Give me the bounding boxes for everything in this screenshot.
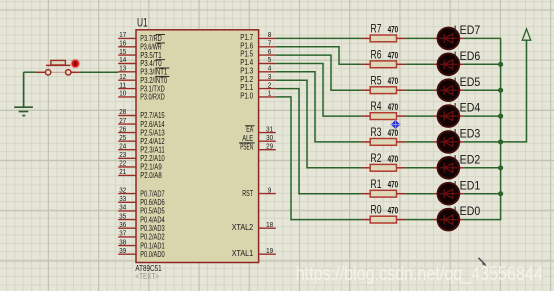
svg-text:LED5: LED5 [454, 77, 480, 89]
U1 pin 6 (P1.5) [240, 49, 276, 59]
junction bus/LED2 [498, 165, 503, 170]
svg-text:36: 36 [119, 222, 126, 229]
origin marker (blue diamond) [390, 119, 400, 129]
svg-text:https://blog.csdn.net/qq_43556: https://blog.csdn.net/qq_43556844 [296, 263, 543, 285]
LED LED3 [433, 131, 463, 153]
U1 pin 2 (P1.1) [240, 82, 276, 92]
wire R7 to LED7 [406, 37, 434, 39]
U1 pin 27 (P2.6/A14) [118, 118, 165, 129]
svg-text:470: 470 [388, 154, 399, 164]
wire R4 to LED4 [406, 115, 434, 117]
svg-text:3: 3 [268, 74, 272, 81]
U1 pin 11 (P3.1/TXD) [118, 82, 165, 93]
resistor R5 [362, 73, 406, 93]
push button (to P3.3) [36, 59, 80, 75]
svg-text:P1.0: P1.0 [240, 92, 253, 101]
U1 pin 23 (P2.2/A10) [118, 152, 165, 163]
wire LED2 to bus [464, 167, 502, 169]
mouse cursor [478, 258, 486, 266]
LED LED0 [433, 209, 463, 231]
LED LED7 [433, 28, 463, 50]
U1 pin 30 (ALE) [242, 134, 276, 143]
U1 pin 22 (P2.1/A9) [118, 161, 162, 172]
svg-text:34: 34 [119, 205, 126, 212]
U1 pin 1 (P1.0) [240, 91, 276, 101]
LED LED5 [433, 79, 463, 101]
svg-text:RST: RST [242, 189, 253, 198]
wire anode bus [500, 38, 502, 219]
U1 pin 39 (P0.0/AD0) [118, 248, 165, 259]
wire button to U1 pin 13 [79, 71, 118, 73]
svg-text:33: 33 [119, 196, 126, 203]
wire ground to button [24, 71, 37, 73]
svg-text:38: 38 [119, 239, 126, 246]
U1 pin 8 (P1.7) [240, 32, 276, 42]
svg-text:P0.7/AD7: P0.7/AD7 [140, 189, 165, 198]
U1 pin 19 (XTAL1) [232, 248, 276, 258]
svg-text:470: 470 [388, 24, 399, 34]
wire R0 to LED0 [406, 219, 434, 221]
svg-text:18: 18 [266, 222, 273, 229]
wire R3 to LED3 [406, 141, 434, 143]
U1 pin 12 (P3.2/INT0) [118, 74, 169, 85]
svg-text:470: 470 [388, 76, 399, 86]
svg-text:R7: R7 [371, 22, 382, 36]
svg-text:LED4: LED4 [454, 103, 481, 115]
LED LED2 [433, 157, 463, 179]
svg-text:470: 470 [388, 206, 399, 216]
svg-text:15: 15 [119, 49, 126, 56]
wire bus to power terminal [501, 40, 527, 142]
svg-text:12: 12 [119, 74, 126, 81]
svg-text:9: 9 [268, 187, 272, 194]
svg-text:470: 470 [388, 180, 399, 190]
svg-text:XTAL2: XTAL2 [232, 223, 254, 232]
wire LED0 to bus [464, 219, 502, 221]
svg-text:LED7: LED7 [454, 25, 480, 37]
svg-text:16: 16 [119, 41, 126, 48]
junction bus/LED6 [498, 62, 503, 67]
resistor R4 [362, 99, 406, 119]
svg-text:17: 17 [119, 32, 126, 39]
LED LED6 [433, 54, 463, 76]
wire P1.7 to R7 [276, 37, 362, 39]
junction bus/LED5 [498, 88, 503, 93]
svg-text:<TEXT>: <TEXT> [135, 272, 159, 281]
svg-text:R6: R6 [371, 47, 382, 61]
resistor R6 [362, 47, 406, 67]
resistor R2 [362, 151, 406, 171]
svg-text:30: 30 [266, 135, 273, 142]
junction bus/LED1 [498, 191, 503, 196]
svg-text:7: 7 [268, 41, 272, 48]
U1 pin 25 (P2.4/A12) [118, 135, 165, 146]
svg-text:XTAL1: XTAL1 [232, 249, 254, 258]
svg-text:29: 29 [266, 143, 273, 150]
U1 pin 29 (PSEN) [239, 142, 276, 151]
svg-text:25: 25 [119, 135, 126, 142]
U1 pin 33 (P0.6/AD6) [118, 196, 165, 207]
svg-text:23: 23 [119, 152, 126, 159]
U1 pin 34 (P0.5/AD5) [118, 205, 165, 216]
svg-text:14: 14 [119, 57, 126, 64]
resistor R7 [362, 22, 406, 42]
U1 pin 35 (P0.4/AD4) [118, 213, 165, 224]
U1 pin 21 (P2.0/A8) [118, 169, 162, 180]
svg-text:32: 32 [119, 187, 126, 194]
wire LED5 to bus [464, 89, 502, 91]
op-amp-style IC body U1 (AT89C51) [136, 30, 259, 263]
wire LED4 to bus [464, 115, 502, 117]
svg-text:P0.0/AD0: P0.0/AD0 [140, 250, 165, 259]
svg-text:26: 26 [119, 126, 126, 133]
wire P1.0 to R0 [276, 97, 362, 220]
svg-text:R2: R2 [371, 151, 382, 165]
U1 pin 28 (P2.7/A15) [118, 109, 165, 120]
U1 pin 3 (P1.2) [240, 74, 276, 84]
junction bus/LED3 [498, 139, 503, 144]
U1 pin 13 (P3.3/INT1) [118, 66, 169, 77]
junction bus/LED4 [498, 114, 503, 119]
svg-text:LED1: LED1 [454, 180, 480, 192]
svg-text:P3.0/RXD: P3.0/RXD [140, 93, 165, 102]
U1 pin 4 (P1.3) [240, 66, 276, 76]
svg-text:21: 21 [119, 169, 126, 176]
svg-text:LED0: LED0 [454, 206, 480, 218]
svg-text:2: 2 [268, 82, 272, 89]
power terminal arrow [522, 29, 530, 40]
wire P1.1 to R1 [276, 89, 362, 194]
wire LED3 to bus [464, 141, 502, 143]
wire R2 to LED2 [406, 167, 434, 169]
svg-text:13: 13 [119, 66, 126, 73]
svg-text:LED2: LED2 [454, 154, 480, 166]
ground [14, 72, 33, 115]
U1 pin 15 (P3.5/T1) [118, 49, 162, 60]
svg-text:19: 19 [266, 248, 273, 255]
svg-text:22: 22 [119, 161, 126, 168]
svg-text:R0: R0 [371, 203, 382, 217]
resistor R3 [362, 125, 406, 145]
U1 pin 14 (P3.4/T0) [118, 57, 165, 68]
LED LED1 [433, 183, 463, 205]
U1 pin 17 (P3.7/RD) [118, 32, 165, 43]
svg-text:R1: R1 [371, 177, 382, 191]
svg-text:8: 8 [268, 32, 272, 39]
svg-text:P0.2/AD2: P0.2/AD2 [140, 233, 165, 242]
svg-text:P0.5/AD5: P0.5/AD5 [140, 207, 165, 216]
svg-text:R3: R3 [371, 125, 382, 139]
wire P1.5 to R5 [276, 55, 362, 90]
svg-text:P0.3/AD3: P0.3/AD3 [140, 224, 165, 233]
wire P1.6 to R6 [276, 47, 362, 65]
U1 pin 31 (EA) [245, 125, 276, 134]
svg-text:31: 31 [266, 126, 273, 133]
svg-text:PSEN: PSEN [240, 142, 253, 151]
U1 pin 10 (P3.0/RXD) [118, 91, 165, 102]
wire P1.2 to R2 [276, 80, 362, 168]
svg-text:28: 28 [119, 109, 126, 116]
U1 pin 36 (P0.3/AD3) [118, 222, 165, 233]
svg-text:LED6: LED6 [454, 51, 480, 63]
svg-text:R4: R4 [371, 99, 382, 113]
svg-text:470: 470 [388, 50, 399, 60]
U1 pin 7 (P1.6) [240, 41, 276, 51]
svg-text:1: 1 [268, 91, 272, 98]
wire LED1 to bus [464, 193, 502, 195]
svg-text:4: 4 [268, 66, 272, 73]
wire P1.3 to R3 [276, 72, 362, 142]
svg-text:24: 24 [119, 143, 126, 150]
svg-text:6: 6 [268, 49, 272, 56]
resistor R0 [362, 203, 406, 223]
svg-text:27: 27 [119, 118, 126, 125]
U1 pin 16 (P3.6/WR) [118, 41, 165, 52]
U1 pin 24 (P2.3/A11) [118, 143, 165, 154]
svg-text:5: 5 [268, 57, 272, 64]
resistor R1 [362, 177, 406, 197]
wire R1 to LED1 [406, 193, 434, 195]
svg-text:39: 39 [119, 248, 126, 255]
svg-text:10: 10 [119, 91, 126, 98]
U1 pin 37 (P0.2/AD2) [118, 231, 165, 242]
svg-text:R5: R5 [371, 73, 382, 87]
wire R6 to LED6 [406, 63, 434, 65]
svg-text:35: 35 [119, 213, 126, 220]
U1 pin 5 (P1.4) [240, 57, 276, 67]
svg-text:LED3: LED3 [454, 129, 480, 141]
U1 pin 18 (XTAL2) [232, 222, 276, 232]
svg-text:U1: U1 [137, 18, 148, 30]
svg-text:470: 470 [388, 102, 399, 112]
wire R5 to LED5 [406, 89, 434, 91]
U1 pin 32 (P0.7/AD7) [118, 187, 165, 198]
wire LED6 to bus [464, 63, 502, 65]
svg-text:11: 11 [119, 82, 126, 89]
svg-text:470: 470 [388, 128, 399, 138]
svg-text:37: 37 [119, 231, 126, 238]
svg-text:P2.0/A8: P2.0/A8 [140, 171, 162, 180]
U1 pin 26 (P2.5/A13) [118, 126, 165, 137]
LED LED4 [433, 105, 463, 127]
wire P1.4 to R4 [276, 64, 362, 117]
U1 pin 38 (P0.1/AD1) [118, 239, 165, 250]
U1 pin 9 (RST) [242, 187, 276, 198]
wire LED7 to bus [464, 37, 502, 39]
